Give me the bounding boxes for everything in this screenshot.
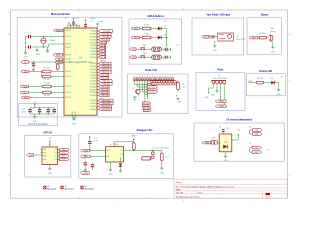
wire timer left: [209, 86, 214, 90]
push button SW2: [141, 53, 147, 58]
global label timer 1: [215, 100, 226, 103]
svg-text:B1: B1: [132, 49, 134, 51]
svg-text:PC0_A0: PC0_A0: [102, 36, 109, 39]
wire LED row 2 c: [161, 37, 166, 39]
connector pad row 2: [152, 55, 162, 59]
svg-text:PD0_RX: PD0_RX: [101, 95, 109, 97]
ground R7: [176, 97, 182, 103]
LCD mid labels: [147, 83, 158, 94]
svg-text:R7: R7: [182, 84, 184, 86]
junction crystal bottom: [43, 46, 44, 47]
svg-text:TMR1: TMR1: [219, 101, 224, 103]
wire timer d1: [221, 86, 227, 101]
svg-text:GND: GND: [48, 173, 53, 175]
svg-text:CHRG: CHRG: [83, 173, 89, 175]
J8 label pair top: [249, 126, 262, 135]
capacitor C6 vcc: [72, 17, 80, 25]
ground DB: [213, 45, 218, 52]
LCD right pin stubs: [150, 80, 173, 82]
svg-text:Alimentation: Alimentation: [47, 187, 56, 190]
power +5V arrow U1 top: [64, 17, 70, 25]
svg-text:100nF: 100nF: [21, 111, 27, 113]
wire LED row 1 c: [161, 28, 166, 30]
global label A6 row: [21, 61, 64, 64]
svg-text:PD0/RX: PD0/RX: [65, 59, 72, 61]
block frame: 5V mode alimentation: [194, 123, 284, 161]
block frame: Probe LCD: [128, 74, 189, 113]
svg-text:A7: A7: [24, 70, 26, 73]
global label A5: [55, 61, 64, 64]
svg-text:C1: C1: [24, 32, 26, 34]
resistor RST pullup: [57, 64, 60, 71]
svg-text:P3: P3: [55, 159, 57, 161]
resistor R2 row1: [42, 68, 64, 73]
global label AREF: [53, 54, 64, 57]
transistor Q1: [132, 88, 140, 94]
decoupling +5V: [33, 102, 37, 108]
caps C13 C14: [82, 158, 94, 171]
capacitor button row 1: [164, 46, 167, 51]
global label LED row 1: [131, 27, 140, 30]
mounting hole H2: [60, 186, 74, 191]
global label BUZ: [249, 36, 258, 39]
svg-text:AFF I2C: AFF I2C: [44, 132, 53, 135]
block frame: Temoin LED: [247, 74, 286, 96]
wire button row 1 c: [162, 48, 165, 50]
LCD right dense labels row A: [151, 81, 178, 84]
svg-text:GND: GND: [72, 124, 77, 126]
svg-text:Temoin LED: Temoin LED: [259, 71, 273, 73]
svg-text:PD0/RX: PD0/RX: [65, 71, 72, 73]
ground timer: [211, 89, 219, 96]
U1 left pin names: [65, 30, 72, 99]
svg-text:PD0/RX: PD0/RX: [65, 54, 72, 56]
resistor R4 SDA: [43, 83, 65, 88]
svg-text:C12: C12: [94, 138, 97, 140]
wire temoin b: [275, 83, 279, 89]
wire USB+: [90, 150, 106, 152]
global label A4: [55, 58, 64, 61]
wire cap down: [33, 66, 35, 68]
ground crystal rail: [24, 52, 29, 59]
svg-text:Vers Globe : DB input: Vers Globe : DB input: [206, 13, 230, 16]
svg-text:R8 100: R8 100: [259, 33, 265, 35]
connector J6 text: [212, 75, 226, 80]
wire U4 out: [232, 137, 239, 140]
svg-text:P0: P0: [62, 149, 64, 151]
svg-text:Alimentation: Alimentation: [65, 187, 74, 190]
resistor R6 330: [142, 25, 151, 30]
svg-text:Id: 1/1: Id: 1/1: [266, 197, 271, 199]
svg-text:PD2: PD2: [134, 28, 137, 30]
crystal Y1 resonator: [41, 37, 56, 43]
global label chg: [80, 172, 89, 175]
wire U3 right: [124, 150, 146, 151]
LCD left pin wires: [135, 80, 148, 97]
wire timer d2: [224, 86, 226, 106]
global label timer 2: [215, 105, 226, 108]
resistor R11: [160, 153, 168, 160]
U1 bottom GND: [72, 110, 77, 125]
ground R11: [160, 161, 165, 175]
global label BAT+: [81, 155, 91, 158]
svg-text:J5: J5: [236, 36, 238, 38]
svg-text:PC0_A0: PC0_A0: [100, 50, 107, 53]
svg-text:KiCad E.D.A. kicad (5.0.2)-1: KiCad E.D.A. kicad (5.0.2)-1: [176, 195, 200, 198]
wire button row 2 c: [162, 56, 165, 58]
decoupling capacitors C8-C11: [28, 107, 56, 114]
ground C13: [84, 168, 86, 169]
ground temoin: [277, 88, 282, 96]
svg-text:D4: D4: [271, 78, 273, 80]
svg-text:PD0/RX: PD0/RX: [65, 76, 72, 78]
svg-text:GND: GND: [108, 174, 113, 176]
resistor R3 row2: [42, 72, 65, 82]
IC U1 ATmega328P-A body: [64, 28, 97, 115]
svg-text:E0: E0: [153, 84, 155, 86]
svg-text:R 330: R 330: [144, 34, 149, 36]
wire button row 1 b: [145, 48, 152, 50]
U2 right labels: [58, 148, 70, 161]
ground buzzer: [271, 46, 276, 54]
svg-text:SCL: SCL: [23, 92, 26, 94]
block frame: Buzzer: [247, 18, 281, 55]
U1 right pins group 3 labels: [97, 99, 113, 111]
svg-text:USB+: USB+: [84, 150, 89, 152]
resistor R8 buzzer: [259, 33, 267, 39]
switch SW3: [211, 138, 217, 145]
svg-text:SW1: SW1: [143, 45, 147, 47]
U1 right pin names: [90, 30, 97, 111]
block frame: AFF I2C: [25, 135, 71, 177]
diode D5: [119, 158, 122, 170]
svg-text:PD0/RX: PD0/RX: [65, 30, 72, 32]
svg-text:PD0/RX: PD0/RX: [65, 47, 72, 49]
connector J5 text: [236, 36, 245, 41]
connector pad row 1: [152, 47, 162, 51]
power stub button row 2: [168, 56, 170, 59]
svg-text:C2: C2: [24, 43, 26, 45]
svg-text:ATmega328P-AU: ATmega328P-AU: [69, 60, 92, 64]
U1 top power stubs: [68, 25, 80, 28]
capacitor C1 22pF: [24, 32, 31, 38]
block frame: Capacite de decouplage: [19, 103, 58, 125]
wire Q1 down: [138, 94, 140, 96]
wire buzzer b: [267, 37, 269, 39]
svg-text:Probe LCD: Probe LCD: [145, 70, 157, 72]
wire crystal left rail: [24, 37, 26, 52]
connector J4 LCD header body: [133, 78, 175, 81]
C7 value text: [90, 18, 95, 23]
IC U3 body: [106, 144, 124, 162]
wire R7 down: [177, 90, 179, 93]
svg-text:LED & buttons: LED & buttons: [147, 15, 164, 18]
power stub button row 1: [168, 48, 170, 51]
svg-text:Timer: Timer: [217, 70, 223, 72]
global label VBAT: [202, 141, 211, 144]
wire timer gnd: [216, 86, 218, 89]
connector J4 LCD header ticks: [134, 76, 173, 78]
capacitor C12: [88, 136, 99, 151]
capacitor DB: [212, 35, 215, 38]
svg-text:Y1: Y1: [50, 37, 52, 39]
wire BAT+: [90, 155, 106, 157]
battery J7 pins: [152, 152, 154, 158]
capacitor button row 2: [164, 54, 167, 59]
wire U3 gnd: [109, 162, 111, 169]
wire LED row 1 b: [151, 28, 158, 30]
row label reset pullup: [21, 96, 64, 99]
svg-text:Buzzer: Buzzer: [270, 30, 276, 33]
svg-text:5V mode d'alimentation: 5V mode d'alimentation: [226, 118, 252, 121]
svg-text:P2: P2: [62, 156, 64, 158]
svg-text:TMR2: TMR2: [219, 106, 224, 108]
svg-text:R11: R11: [166, 156, 169, 158]
resistor R9 330: [256, 78, 264, 84]
svg-text:A6: A6: [24, 61, 26, 64]
svg-text:R4 4k7: R4 4k7: [44, 83, 50, 85]
svg-text:Buzzer: Buzzer: [261, 14, 269, 16]
svg-text:E8: E8: [174, 84, 176, 86]
svg-text:PD0/RX: PD0/RX: [65, 86, 72, 88]
svg-text:SW2: SW2: [143, 53, 147, 55]
connector J5 jack body: [218, 33, 234, 41]
svg-text:GND: GND: [205, 97, 210, 99]
svg-text:Microcontroller: Microcontroller: [51, 12, 70, 16]
svg-text:Chargeur LiPo: Chargeur LiPo: [137, 130, 153, 132]
U2 left wire: [34, 154, 42, 156]
block frame: Timer: [196, 73, 245, 111]
wire R7 top: [177, 80, 179, 82]
wire LED row 1: [140, 28, 143, 30]
svg-text:R2 10k: R2 10k: [44, 68, 50, 70]
wire buzzer gnd: [272, 42, 274, 46]
svg-text:Sheet: /: Sheet: /: [176, 181, 183, 184]
svg-text:RESET: RESET: [56, 30, 63, 32]
svg-text:U4: U4: [219, 126, 221, 128]
svg-text:C15: C15: [226, 128, 229, 130]
capacitor C15 above U4: [219, 126, 229, 134]
ground A6 cap: [33, 68, 35, 69]
svg-text:R5 4k7: R5 4k7: [44, 95, 50, 97]
svg-text:P1: P1: [62, 153, 64, 155]
resistor R7 330: [142, 34, 151, 39]
svg-text:IN_DB: IN_DB: [204, 37, 210, 39]
wire R11: [152, 150, 162, 153]
diode in U4: [223, 145, 227, 149]
global label button row 1: [130, 48, 137, 51]
svg-text:R?: R?: [176, 95, 178, 97]
mounting hole H3: [80, 186, 94, 191]
LED D2: [158, 34, 166, 39]
LED D4: [271, 78, 275, 85]
svg-text:PD0/RX: PD0/RX: [65, 36, 72, 38]
J9 label pair bottom: [249, 143, 269, 154]
svg-text:File: SOLUTION-CARTE-VALISE-CA: File: SOLUTION-CARTE-VALISE-CABSON-VALID…: [176, 185, 235, 188]
svg-text:Q1: Q1: [132, 88, 134, 90]
power flag right: [96, 21, 104, 28]
wire LED rail: [166, 29, 168, 44]
resistor R5 SCL: [43, 91, 65, 97]
svg-text:PD0/RX: PD0/RX: [65, 62, 72, 64]
wire SW3: [211, 142, 219, 144]
svg-text:J7 Conn_01x02_Batt: J7 Conn_01x02_Batt: [152, 147, 169, 150]
global label A7 row: [21, 70, 42, 73]
svg-text:Alimentation: Alimentation: [85, 187, 94, 190]
wire crystal top: [25, 36, 64, 38]
svg-text:GND: GND: [160, 172, 165, 174]
+5V out arrow: [237, 130, 241, 138]
global label button row 2: [130, 56, 137, 59]
capacitor C3 on A6 row: [32, 62, 35, 66]
resistor R7 contrast: [177, 82, 185, 89]
wire button row 1: [136, 48, 141, 50]
push button SW1: [141, 45, 147, 50]
global label SCL: [20, 91, 42, 94]
global label SDA: [20, 85, 42, 88]
+BATT arrow: [131, 135, 138, 142]
wire temoin: [264, 82, 272, 84]
global label LED row 2: [131, 36, 140, 39]
wire DB 2: [215, 36, 218, 38]
ground U3: [108, 169, 113, 177]
block frame: Vers Globe DB input: [192, 18, 244, 55]
svg-text:Capacité de découplage: Capacité de découplage: [28, 122, 47, 125]
svg-text:AREF: AREF: [56, 54, 61, 57]
global label RESET: [54, 29, 65, 32]
svg-text:A4: A4: [58, 58, 60, 61]
ground Q1: [134, 96, 136, 97]
svg-text:E2: E2: [158, 84, 160, 86]
svg-text:Conn_01x04_Male: Conn_01x04_Male: [212, 78, 226, 80]
svg-text:GND: GND: [33, 121, 38, 123]
wire buzzer: [258, 37, 259, 39]
svg-text:P2: P2: [55, 156, 57, 158]
U2 top +5V: [48, 138, 52, 147]
LCD bottom label stack: [143, 102, 152, 112]
svg-text:CE: CE: [121, 150, 123, 152]
connector J6 pins: [211, 81, 226, 87]
svg-text:GND: GND: [277, 94, 282, 96]
svg-text:PD0/RX: PD0/RX: [65, 97, 72, 99]
svg-text:P1: P1: [55, 152, 57, 154]
ground D5: [119, 169, 121, 170]
svg-text:D2: D2: [164, 34, 166, 36]
U2 bottom gnd: [48, 164, 53, 175]
svg-text:+BATT: +BATT: [131, 135, 138, 138]
svg-text:GND: GND: [213, 50, 218, 52]
svg-text:PD0/RX: PD0/RX: [65, 44, 72, 46]
svg-text:GND: GND: [271, 51, 276, 53]
resistor R10: [132, 142, 135, 150]
U1 right pins group 2 labels: [97, 62, 112, 97]
block frame: Chargeur LiPo: [79, 134, 174, 179]
svg-text:PB4_MISO: PB4_MISO: [102, 109, 111, 111]
svg-text:C13: C13: [82, 158, 85, 160]
wire LED row 2 b: [151, 37, 158, 39]
svg-text:E4: E4: [163, 84, 165, 86]
ground crystal right: [46, 47, 51, 54]
svg-text:E6: E6: [169, 84, 171, 86]
svg-text:P3: P3: [62, 159, 64, 161]
svg-text:Size: A4: Size: A4: [176, 191, 183, 194]
svg-text:LCD_D3: LCD_D3: [148, 92, 154, 94]
capacitor C2 22pF: [24, 43, 31, 49]
svg-text:B2: B2: [132, 57, 134, 59]
wire crystal bottom: [25, 44, 64, 47]
svg-text:R 330: R 330: [144, 25, 149, 27]
net label D13: [249, 81, 256, 83]
svg-text:ST: ST: [121, 158, 123, 160]
svg-text:J9: J9: [249, 143, 251, 145]
U3 top wire: [115, 142, 134, 147]
svg-text:J8: J8: [249, 126, 251, 128]
svg-text:16MHz: 16MHz: [50, 40, 56, 42]
ground U4: [224, 155, 229, 162]
svg-text:Title:: Title:: [176, 188, 181, 191]
wire crystal vertical: [43, 37, 45, 48]
svg-text:SW3: SW3: [212, 138, 216, 140]
ground crystal mid: [35, 47, 40, 56]
LED D1: [158, 25, 166, 30]
junction crystal top: [43, 36, 44, 37]
decoupling GND: [33, 114, 38, 123]
svg-text:C7: C7: [91, 21, 93, 23]
svg-text:GND: GND: [211, 95, 216, 97]
block frame: Microcontroller: [17, 17, 122, 117]
svg-text:PD0/RX: PD0/RX: [65, 92, 72, 94]
U1 right pins group 1 labels: [97, 30, 113, 59]
global label USB+: [81, 149, 91, 152]
power down arrow LED rail: [165, 43, 170, 52]
battery sw: [142, 157, 150, 160]
decoupling value text: [21, 109, 27, 114]
wire to stack: [145, 80, 148, 102]
svg-text:D1: D1: [164, 25, 166, 27]
power arrow timer: [205, 90, 210, 98]
IC U4 regulator body: [219, 134, 232, 152]
LCD right dense labels row B: [152, 83, 179, 86]
svg-text:Date:: Date:: [198, 191, 203, 194]
wire button row 2: [136, 56, 141, 58]
wire U4 gnd: [225, 152, 227, 155]
global label DB IN: [202, 36, 211, 39]
wire DB gnd: [214, 41, 216, 45]
wire conn batt: [145, 150, 153, 152]
buzzer BZ1: [269, 28, 276, 41]
global label U2 left: [26, 154, 33, 157]
wire LED row 2: [140, 37, 143, 39]
IC U2 body: [41, 144, 58, 164]
svg-text:10k: 10k: [182, 87, 185, 89]
wire DB: [210, 36, 211, 38]
junction LED rail: [166, 37, 167, 38]
junction A6: [33, 61, 34, 62]
svg-text:MJ-179PH: MJ-179PH: [236, 39, 245, 41]
mounting hole H1: [43, 186, 57, 191]
svg-text:P0: P0: [55, 149, 57, 151]
svg-text:R3 10k: R3 10k: [44, 79, 50, 81]
wire button row 2 b: [145, 56, 152, 58]
svg-text:A5: A5: [58, 61, 60, 64]
svg-text:100nF: 100nF: [90, 18, 95, 20]
svg-text:MT?: MT?: [225, 142, 228, 144]
svg-text:R9 330: R9 330: [257, 78, 263, 80]
svg-text:LCD_BL: LCD_BL: [144, 110, 150, 112]
block frame: LED et boutons: [129, 19, 182, 64]
capacitor C7 avcc: [84, 19, 87, 28]
svg-text:PC0_A0: PC0_A0: [100, 56, 107, 59]
